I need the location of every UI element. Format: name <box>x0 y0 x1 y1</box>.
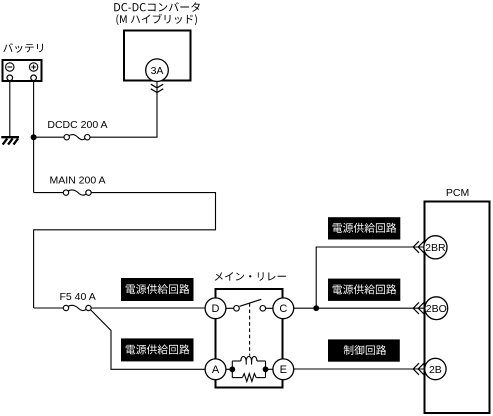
relay coil side verticals <box>232 361 265 378</box>
label box 電源供給回路 (A row) <box>121 338 194 361</box>
fuse DCDC 200 A <box>64 135 69 140</box>
label (M ハイブリッド) <box>116 14 196 25</box>
label box 制御回路 (2B row) <box>328 339 400 361</box>
label バッテリ <box>3 43 43 53</box>
label box 電源供給回路 (2BR row) <box>328 217 400 239</box>
wire relay pin C to PCM pin 2BO <box>294 307 426 309</box>
relay pin D <box>205 298 226 319</box>
label DC-DCコンバータ <box>114 2 199 12</box>
wire battery negative terminal to ground <box>9 81 11 138</box>
pin 3A on DC-DC converter <box>146 59 169 82</box>
relay pin E <box>273 359 294 380</box>
relay switch contact stubs <box>226 307 273 309</box>
fuse MAIN 200 A <box>63 190 68 195</box>
svg-text:F5 40 A: F5 40 A <box>60 291 96 303</box>
relay contact point left <box>234 306 240 312</box>
PCM pin 2BR <box>424 236 447 259</box>
battery plus terminal symbol <box>29 63 37 71</box>
wire F5 row left segment <box>34 307 64 309</box>
ground (chassis) <box>1 137 19 144</box>
svg-text:2BO: 2BO <box>426 303 447 315</box>
svg-text:C: C <box>279 303 287 315</box>
svg-text:PCM: PCM <box>446 187 469 199</box>
wire MAIN fuse row left segment <box>34 192 64 194</box>
relay coil connection stubs <box>226 368 273 370</box>
relay coil junction dot right <box>263 366 269 372</box>
svg-text:A: A <box>212 364 220 376</box>
battery positive post <box>31 75 37 81</box>
wire branch up to PCM pin 2BR <box>316 247 424 308</box>
relay pin C <box>273 298 294 319</box>
output arrows under pin 3A <box>151 84 163 92</box>
relay coil junction dot left <box>229 366 235 372</box>
label メイン・リレー <box>215 272 286 281</box>
wire relay pin E to PCM pin 2B <box>294 368 426 370</box>
main relay box (メイン・リレー) <box>216 289 283 388</box>
battery negative post <box>7 75 13 81</box>
svg-text:D: D <box>212 303 220 315</box>
relay contact point right <box>260 306 266 312</box>
wire branch F5 fuse to relay pin A <box>91 310 205 370</box>
PCM pin 2BO <box>425 297 448 320</box>
svg-text:DCDC 200 A: DCDC 200 A <box>47 119 107 131</box>
battery (バッテリ) <box>3 60 42 81</box>
svg-text:E: E <box>280 364 287 376</box>
PCM box <box>425 202 490 414</box>
wire MAIN fuse to F5 row (right, down, left, down) <box>34 193 216 308</box>
PCM pin 2B <box>425 358 446 379</box>
junction node on C-to-2BO wire <box>313 305 319 311</box>
wire junction to DCDC fuse <box>34 136 64 138</box>
svg-text:2B: 2B <box>429 364 442 376</box>
relay actuator dashed link <box>249 303 251 355</box>
junction node battery positive / DCDC branch <box>31 134 37 140</box>
relay coil (inductor) top branch <box>232 356 265 381</box>
connector chevron at 2BR <box>413 241 419 253</box>
relay coil inner loop ticks <box>246 361 251 365</box>
fuse F5 40 A <box>63 305 68 310</box>
DC-DC converter box <box>124 31 191 81</box>
connector chevron at 2BO <box>413 302 419 314</box>
relay pin A <box>205 359 226 380</box>
relay switch arm <box>240 299 262 306</box>
connector chevron at 2B <box>413 363 419 375</box>
svg-text:MAIN 200 A: MAIN 200 A <box>50 175 106 187</box>
label box 電源供給回路 (2BO row) <box>328 279 400 301</box>
label box 電源供給回路 (D row) <box>121 278 194 301</box>
wire battery positive terminal down to MAIN fuse row <box>33 81 35 193</box>
battery minus terminal symbol <box>6 63 14 71</box>
wire F5 fuse to relay pin D <box>91 307 205 309</box>
svg-text:3A: 3A <box>151 65 164 77</box>
svg-text:2BR: 2BR <box>425 242 446 254</box>
wire DCDC fuse to DC-DC converter (up to 3A) <box>90 82 157 138</box>
relay resistor bottom branch <box>232 377 242 379</box>
